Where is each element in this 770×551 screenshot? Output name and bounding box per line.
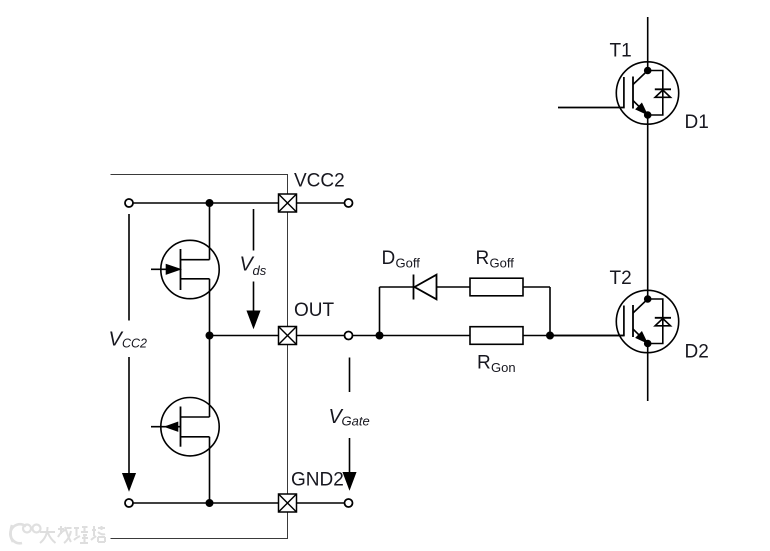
wire RGoff to corner: [523, 286, 550, 288]
svg-text:R: R: [477, 353, 491, 374]
wire OUT to T2 gate: [353, 335, 625, 337]
transistor M2 (lower output FET): [151, 398, 219, 456]
svg-text:Goff: Goff: [490, 256, 515, 271]
diode DGoff: [414, 275, 437, 300]
svg-text:D: D: [382, 248, 396, 269]
wire T1 collector top: [647, 17, 649, 71]
junction dot gate branch: [547, 332, 553, 338]
wire OUT row left: [210, 335, 280, 337]
wire T2 emitter bottom: [647, 344, 649, 402]
transistor T2 (IGBT): [550, 290, 679, 352]
terminal circle VCC2 right: [345, 199, 353, 207]
svg-text:OUT: OUT: [294, 300, 335, 321]
resistor RGon: [470, 327, 523, 345]
svg-text:T2: T2: [610, 268, 632, 289]
wire VCC2 row left: [133, 202, 280, 204]
node OUT junction to snubber branch: [379, 287, 381, 336]
watermark logo: [10, 524, 40, 543]
svg-text:D2: D2: [685, 342, 709, 363]
svg-text:T1: T1: [610, 41, 632, 62]
wire GND2 row right: [297, 502, 346, 504]
VGate measure arrow: [344, 358, 356, 489]
wire M2 drain: [209, 336, 211, 418]
svg-text:ds: ds: [253, 263, 267, 278]
wire upper branch to diode: [380, 286, 414, 288]
wire GND2 row left: [133, 502, 280, 504]
svg-text:GND2: GND2: [291, 470, 344, 491]
wire corner down to junction: [549, 287, 551, 336]
VCC2 measure arrow: [123, 214, 135, 490]
wire M2 source: [209, 437, 211, 503]
junction dot GND2/M2: [206, 500, 212, 506]
svg-text:CC2: CC2: [122, 337, 147, 351]
wire M1 drain: [209, 203, 211, 260]
junction dot OUT branch: [376, 332, 382, 338]
pin VCC2 (crossed box): [279, 194, 297, 212]
wire OUT row mid: [297, 335, 346, 337]
svg-text:Gon: Gon: [491, 360, 516, 375]
svg-text:Goff: Goff: [396, 255, 421, 270]
svg-text:Gate: Gate: [342, 414, 370, 429]
svg-text:R: R: [476, 248, 490, 269]
junction dot VCC2/M1: [206, 200, 212, 206]
svg-text:VCC2: VCC2: [294, 171, 345, 192]
terminal circle OUT: [345, 332, 353, 340]
junction dot OUT/M1-M2: [206, 332, 212, 338]
terminal circle GND2 right: [345, 499, 353, 507]
pin OUT (crossed box): [279, 327, 297, 345]
transistor T1 (IGBT): [558, 62, 679, 124]
driver IC outline (thin open box): [111, 175, 288, 539]
pin GND2 (crossed box): [279, 494, 297, 512]
wire M1 source: [209, 279, 211, 336]
resistor RGoff: [470, 278, 523, 296]
Vds measure arrow: [248, 209, 260, 327]
terminal circle GND2 left: [125, 499, 133, 507]
wire T1 emitter to T2 collector: [647, 115, 649, 299]
svg-text:D1: D1: [685, 112, 709, 133]
wire VCC2 row right: [297, 202, 346, 204]
watermark text: [40, 526, 105, 543]
terminal circle VCC2 left: [125, 199, 133, 207]
transistor M1 (upper output FET): [151, 240, 219, 298]
wire diode to RGoff: [437, 286, 471, 288]
